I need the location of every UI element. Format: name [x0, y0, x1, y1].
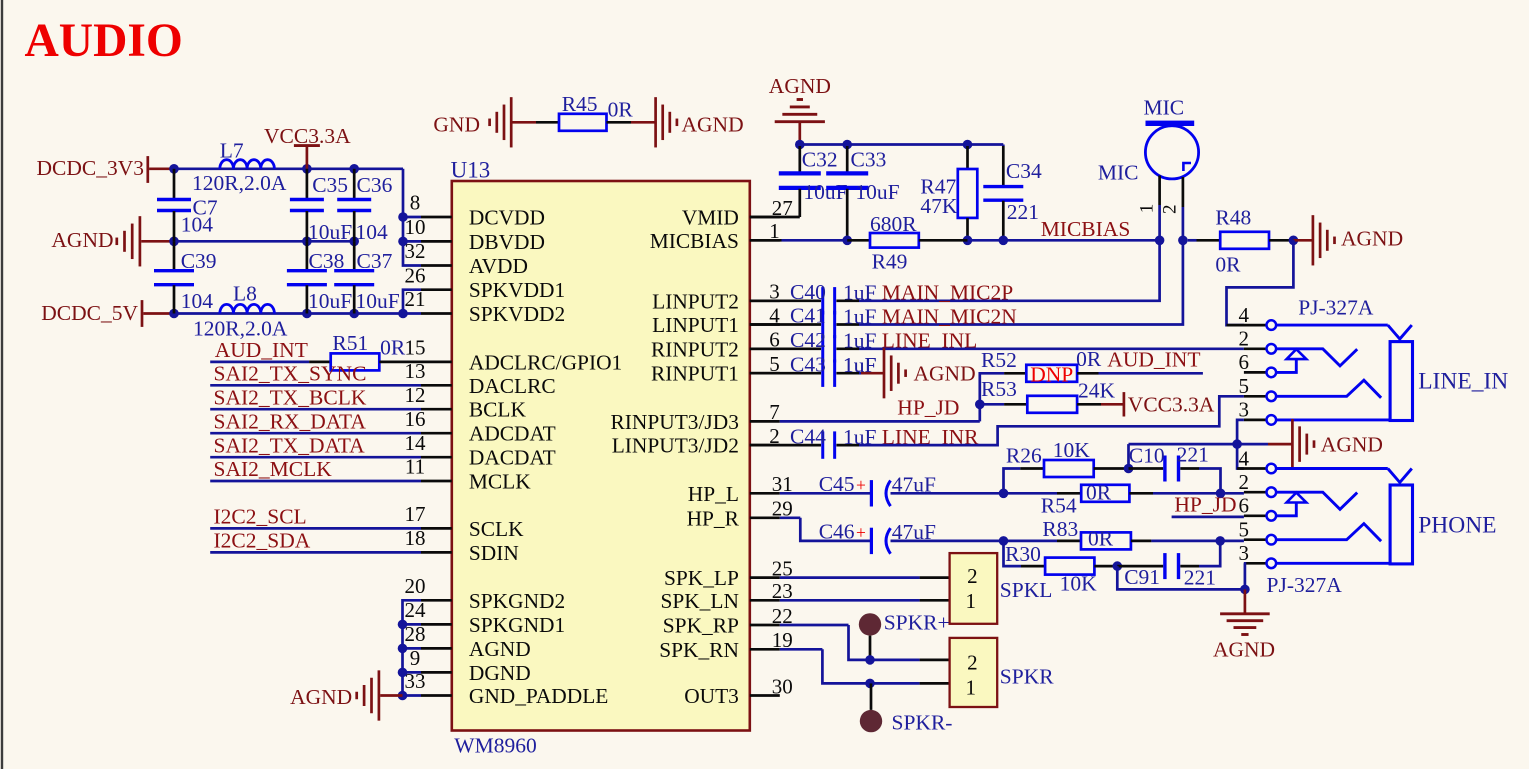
pin 4 of LINE_IN	[1227, 324, 1267, 327]
svg-text:AUD_INT: AUD_INT	[1107, 348, 1200, 372]
svg-text:SDIN: SDIN	[469, 541, 519, 565]
capacitor C43	[750, 372, 821, 375]
pin 4 LINPUT1	[750, 323, 780, 326]
pin 4 of PHONE	[1237, 467, 1266, 470]
svg-text:SPK_RN: SPK_RN	[659, 638, 739, 662]
svg-text:+: +	[856, 523, 866, 543]
svg-text:2: 2	[967, 650, 978, 674]
junction dot C33 bottom	[842, 236, 852, 246]
svg-text:I2C2_SCL: I2C2_SCL	[214, 505, 307, 529]
svg-text:6: 6	[1238, 350, 1249, 374]
svg-text:SPKL: SPKL	[1000, 578, 1053, 602]
svg-text:DCDC_5V: DCDC_5V	[41, 301, 138, 325]
svg-text:C35: C35	[312, 173, 348, 197]
wire C91 left down to ground run	[1117, 566, 1245, 589]
svg-text:C39: C39	[181, 249, 217, 273]
pin 6 of LINE_IN	[1244, 371, 1266, 374]
pin 18 SDIN	[421, 551, 452, 554]
svg-text:AGND: AGND	[290, 685, 352, 709]
capacitor C33	[846, 146, 849, 172]
svg-text:DACLRC: DACLRC	[469, 374, 556, 398]
pin 16 ADCDAT	[421, 432, 452, 435]
wire MAIN_MIC2P to mic pin1	[859, 205, 1160, 301]
svg-text:10K: 10K	[1053, 438, 1091, 462]
svg-text:104: 104	[356, 220, 389, 244]
svg-text:VCC3.3A: VCC3.3A	[1128, 393, 1215, 417]
capacitor C41	[750, 323, 821, 326]
svg-text:R26: R26	[1006, 444, 1042, 468]
svg-text:SCLK: SCLK	[469, 517, 524, 541]
svg-text:R30: R30	[1005, 542, 1041, 566]
junction dots top rail C35 C36	[302, 164, 312, 174]
capacitor C42	[750, 347, 821, 350]
svg-text:C42: C42	[790, 328, 826, 352]
jack PHONE tip contact	[1276, 492, 1357, 509]
pin 29 HP_R	[750, 516, 780, 519]
svg-text:10uF: 10uF	[803, 180, 847, 204]
svg-text:10K: 10K	[1060, 572, 1098, 596]
svg-text:PHONE: PHONE	[1418, 512, 1496, 538]
power port AGND right of R48	[1293, 239, 1313, 242]
jack LINE_IN ring contact	[1276, 380, 1381, 398]
svg-text:DNP: DNP	[1030, 363, 1073, 387]
svg-text:0R: 0R	[1215, 253, 1241, 277]
pin 13 DACLRC	[421, 384, 452, 387]
jack PHONE sleeve symbol	[1276, 467, 1388, 470]
pin 5 of LINE_IN	[1244, 395, 1266, 398]
svg-text:U13: U13	[451, 157, 491, 182]
wire pin3 LINE_IN	[1276, 418, 1390, 421]
wire pin8 branch	[403, 216, 421, 219]
junction dot 3V3 node	[169, 164, 179, 174]
wire AGND to C10 left	[1127, 444, 1130, 468]
wire AUD_INT to R51	[210, 361, 309, 364]
svg-text:SPKGND2: SPKGND2	[469, 589, 565, 613]
svg-text:1uF: 1uF	[843, 304, 877, 328]
capacitor C7	[173, 169, 176, 199]
pin 11 MCLK	[421, 480, 452, 483]
wire pin25 to SPKL pin2	[780, 576, 920, 579]
svg-text:680R: 680R	[870, 212, 917, 236]
wire to SPKR pin1	[870, 682, 920, 685]
wire 3V3 top rail	[172, 167, 404, 170]
pin 25 SPK_LP	[750, 576, 780, 579]
svg-text:1: 1	[966, 675, 977, 699]
svg-text:4: 4	[1238, 446, 1249, 470]
capacitor C38	[306, 241, 309, 270]
pin 24 SPKGND1	[421, 623, 452, 626]
svg-text:120R,2.0A: 120R,2.0A	[192, 171, 287, 195]
svg-text:MAIN_MIC2P: MAIN_MIC2P	[882, 281, 1013, 305]
wire R83 to PHONE pin5	[1151, 540, 1244, 543]
svg-text:PJ-327A: PJ-327A	[1298, 296, 1374, 320]
svg-text:0R: 0R	[1088, 527, 1114, 551]
svg-text:R52: R52	[981, 348, 1017, 372]
svg-text:C10: C10	[1129, 444, 1165, 468]
wire pin21 branch	[403, 312, 421, 315]
svg-text:10: 10	[405, 215, 426, 239]
svg-text:120R,2.0A: 120R,2.0A	[193, 317, 288, 341]
pin 27 VMID	[750, 216, 780, 219]
svg-text:L7: L7	[220, 138, 244, 162]
svg-text:LINE_IN: LINE_IN	[1418, 369, 1508, 395]
svg-text:SAI2_TX_SYNC: SAI2_TX_SYNC	[214, 362, 367, 386]
svg-text:1: 1	[966, 589, 977, 613]
wire C10 right down to HP_L	[1199, 469, 1221, 494]
wire I2C2_SDA	[210, 551, 421, 554]
svg-text:3: 3	[1238, 398, 1249, 422]
junction dots on rail drop	[398, 212, 408, 222]
connector SPKL	[950, 553, 998, 624]
resistor R26	[1020, 467, 1044, 470]
svg-text:HP_L: HP_L	[688, 482, 739, 506]
svg-text:0R: 0R	[380, 336, 406, 360]
pin 7 RINPUT3/JD3	[750, 420, 780, 423]
pin 2 of PHONE	[1244, 491, 1266, 494]
svg-text:GND: GND	[433, 113, 480, 137]
svg-text:C91: C91	[1124, 565, 1160, 589]
svg-text:SPKGND1: SPKGND1	[469, 613, 565, 637]
svg-text:SAI2_MCLK: SAI2_MCLK	[214, 457, 333, 481]
svg-text:AGND: AGND	[469, 637, 531, 661]
svg-text:8: 8	[410, 191, 421, 215]
svg-text:3: 3	[1238, 541, 1249, 565]
pin 15 ADCLRC/GPIO1	[421, 361, 452, 364]
wire pin31 HP_L to C45	[780, 492, 870, 495]
svg-text:SAI2_TX_BCLK: SAI2_TX_BCLK	[214, 385, 367, 409]
svg-text:LINPUT2: LINPUT2	[652, 289, 739, 313]
svg-text:MAIN_MIC2N: MAIN_MIC2N	[882, 304, 1017, 328]
capacitor C36	[353, 169, 356, 199]
pin 26 SPKVDD1	[421, 288, 452, 291]
wire node down to R30	[1004, 541, 1022, 566]
svg-text:221: 221	[1007, 200, 1039, 224]
svg-text:DCVDD: DCVDD	[469, 206, 545, 230]
svg-text:0R: 0R	[1086, 480, 1112, 504]
pin 17 SCLK	[421, 527, 452, 530]
wire pin27 to C32	[798, 215, 801, 217]
svg-text:DBVDD: DBVDD	[469, 230, 545, 254]
svg-text:10uF: 10uF	[308, 220, 352, 244]
pin 23 SPK_LN	[750, 599, 780, 602]
svg-text:C43: C43	[790, 352, 826, 376]
svg-text:C46: C46	[819, 520, 855, 544]
svg-text:SPKR: SPKR	[1000, 664, 1054, 688]
svg-text:R49: R49	[872, 249, 908, 273]
pin 5 RINPUT1	[750, 372, 780, 375]
resistor R53	[980, 403, 1004, 406]
svg-text:SAI2_RX_DATA: SAI2_RX_DATA	[214, 409, 367, 433]
svg-text:15: 15	[405, 336, 426, 360]
wire ground tie pins 20 24 28 9 33	[403, 600, 422, 695]
svg-text:GND_PADDLE: GND_PADDLE	[469, 684, 608, 708]
svg-text:AGND: AGND	[914, 362, 976, 386]
svg-text:DGND: DGND	[469, 661, 531, 685]
svg-text:AGND: AGND	[769, 74, 831, 98]
wire LINE_INL to jack pin2	[859, 347, 1244, 350]
inductor L8	[220, 304, 275, 313]
svg-text:HP_JD: HP_JD	[1174, 493, 1236, 517]
pin 6 RINPUT2	[750, 347, 780, 350]
wire LINE_INR to jack pin5	[859, 396, 1244, 445]
pin 32 AVDD	[421, 264, 452, 267]
svg-text:24: 24	[405, 598, 427, 622]
pin 28 AGND	[421, 647, 452, 650]
svg-text:5: 5	[1238, 518, 1249, 542]
svg-text:AGND: AGND	[1341, 227, 1403, 251]
wire pin29 HP_R to C46	[780, 516, 801, 519]
svg-text:RINPUT2: RINPUT2	[651, 337, 739, 361]
svg-text:24K: 24K	[1078, 378, 1116, 402]
pin 14 DACDAT	[421, 456, 452, 459]
svg-text:C41: C41	[790, 304, 826, 328]
svg-text:R51: R51	[332, 331, 368, 355]
svg-text:DCDC_3V3: DCDC_3V3	[36, 156, 144, 180]
capacitor C44	[750, 444, 821, 447]
svg-text:10uF: 10uF	[356, 289, 400, 313]
capacitor C37	[353, 241, 356, 270]
svg-text:104: 104	[181, 289, 214, 313]
capacitor C10	[1129, 467, 1164, 470]
pin 5 of PHONE	[1244, 538, 1266, 541]
svg-text:2: 2	[1238, 327, 1249, 351]
svg-text:10uF: 10uF	[855, 180, 899, 204]
jack LINE_IN switch contact	[1276, 359, 1296, 372]
resistor R83	[1057, 540, 1081, 543]
svg-text:30: 30	[772, 674, 793, 698]
svg-text:20: 20	[405, 574, 426, 598]
pin 1 of MIC	[1158, 176, 1161, 206]
svg-text:C45: C45	[819, 472, 855, 496]
wire pin3 PHONE	[1276, 562, 1390, 565]
svg-text:OUT3: OUT3	[684, 684, 739, 708]
jack LINE_IN sleeve symbol	[1276, 324, 1388, 327]
resistor R48	[1188, 239, 1197, 242]
svg-text:SPK_LP: SPK_LP	[664, 566, 739, 590]
svg-text:C37: C37	[357, 249, 393, 273]
wire C46 to node	[891, 540, 1058, 543]
svg-text:RINPUT3/JD3: RINPUT3/JD3	[611, 410, 739, 434]
svg-text:AUDIO: AUDIO	[25, 15, 183, 67]
svg-text:221: 221	[1177, 443, 1209, 467]
svg-text:C44: C44	[790, 424, 826, 448]
pin 10 DBVDD	[421, 240, 452, 243]
wire SAI2_TX_SYNC	[210, 384, 421, 387]
svg-text:AGND: AGND	[51, 228, 113, 252]
pin 33 GND_PADDLE	[421, 694, 452, 697]
wire HP_JD stub to PHONE pin6	[1172, 516, 1244, 519]
resistor R49	[847, 239, 870, 242]
pin 31 HP_L	[750, 492, 780, 495]
svg-text:RINPUT1: RINPUT1	[651, 362, 739, 386]
wire SAI2_TX_BCLK	[210, 408, 421, 411]
wire SAI2_RX_DATA	[210, 432, 421, 435]
pin 22 SPK_RP	[750, 624, 780, 627]
svg-text:SAI2_TX_DATA: SAI2_TX_DATA	[214, 433, 366, 457]
svg-text:+: +	[856, 475, 866, 495]
svg-text:R45: R45	[562, 92, 598, 116]
wire micbias to mic	[968, 239, 1160, 242]
svg-text:4: 4	[1238, 303, 1249, 327]
wire pin1 micbias	[750, 239, 782, 242]
resistor R51	[309, 361, 331, 364]
ground AGND earth bottom	[1244, 589, 1247, 613]
wire bottom rail rise to pin 26	[403, 290, 421, 314]
svg-text:HP_JD: HP_JD	[897, 395, 959, 419]
jack LINE_IN tip contact	[1276, 349, 1357, 366]
junction dots bottom rail	[169, 309, 179, 319]
svg-text:2: 2	[1238, 470, 1249, 494]
svg-text:ADCDAT: ADCDAT	[469, 422, 556, 446]
svg-text:17: 17	[405, 502, 426, 526]
svg-text:L8: L8	[233, 282, 257, 306]
svg-text:MICBIAS: MICBIAS	[650, 229, 739, 253]
svg-text:0R: 0R	[1076, 347, 1102, 371]
pin 9 DGND	[421, 671, 452, 674]
svg-text:AUD_INT: AUD_INT	[215, 338, 308, 362]
capacitor C40	[750, 299, 821, 302]
op-amp U13 WM8960 codec body	[452, 181, 750, 731]
svg-text:26: 26	[405, 263, 426, 287]
svg-text:221: 221	[1184, 566, 1216, 590]
pin 12 BCLK	[421, 408, 452, 411]
svg-text:ADCLRC/GPIO1: ADCLRC/GPIO1	[469, 350, 622, 374]
pin 30 OUT3	[750, 694, 780, 697]
svg-text:AGND: AGND	[1213, 637, 1275, 661]
resistor R47	[966, 146, 969, 169]
power port VCC3.3A right	[1101, 403, 1124, 406]
pin 2 of LINE_IN	[1244, 347, 1266, 350]
svg-text:21: 21	[405, 287, 426, 311]
wire to SPKR pin2	[870, 659, 920, 662]
svg-text:SPK_LN: SPK_LN	[660, 589, 738, 613]
svg-text:C36: C36	[357, 173, 393, 197]
svg-text:6: 6	[1238, 494, 1249, 518]
capacitor C91	[1117, 565, 1163, 568]
svg-text:R48: R48	[1215, 206, 1251, 230]
pin 8 DCVDD	[421, 216, 452, 219]
pin 2 of MIC	[1182, 177, 1185, 207]
svg-text:5: 5	[1238, 374, 1249, 398]
wire AGND node to PHONE pin4	[1237, 444, 1244, 468]
svg-text:LINPUT1: LINPUT1	[652, 313, 739, 337]
pin 6 of PHONE	[1244, 514, 1266, 517]
svg-text:C32: C32	[802, 148, 838, 172]
wire node up to R26	[1004, 469, 1021, 494]
svg-text:7: 7	[769, 400, 780, 424]
svg-text:47K: 47K	[920, 194, 958, 218]
pin 1 MICBIAS	[750, 239, 780, 242]
svg-text:SPK_RP: SPK_RP	[663, 614, 739, 638]
svg-text:AGND: AGND	[1321, 433, 1383, 457]
svg-text:2: 2	[967, 564, 978, 588]
wire PHONE pin3 down	[1244, 563, 1245, 589]
power port AGND right of R45	[631, 121, 656, 124]
pin 20 SPKGND2	[421, 599, 452, 602]
pin 21 SPKVDD2	[421, 312, 452, 315]
svg-text:MIC: MIC	[1144, 96, 1185, 120]
wire C91 right up to R83 row	[1199, 541, 1220, 566]
wire R54 to PHONE pin2	[1153, 492, 1244, 495]
svg-text:SPKVDD2: SPKVDD2	[469, 302, 565, 326]
resistor R52 DNP	[1004, 372, 1026, 375]
svg-text:1: 1	[1137, 204, 1158, 214]
svg-text:1uF: 1uF	[843, 281, 877, 305]
svg-text:C33: C33	[851, 148, 887, 172]
svg-text:104: 104	[181, 213, 214, 237]
wire C45 to node	[891, 492, 1058, 495]
wire I2C2_SCL	[210, 527, 421, 530]
wire pin22 SPK_RP	[780, 624, 849, 627]
svg-text:I2C2_SDA: I2C2_SDA	[214, 529, 311, 553]
pin 3 of LINE_IN	[1244, 419, 1266, 422]
pin 19 SPK_RN	[750, 648, 780, 651]
capacitor C32	[798, 146, 801, 172]
inductor L7	[220, 160, 275, 169]
capacitor C39	[173, 241, 176, 270]
svg-text:AGND: AGND	[682, 113, 744, 137]
svg-text:SPKR-: SPKR-	[892, 711, 953, 735]
connector SPKR	[950, 638, 998, 707]
wire LINE_IN pin3 to AGND node	[1237, 420, 1244, 444]
svg-text:2: 2	[1160, 205, 1181, 215]
wire SAI2_MCLK	[210, 480, 421, 483]
wire R48 node down to jack pin4	[1227, 240, 1294, 325]
resistor R54	[1057, 492, 1081, 495]
svg-text:BCLK: BCLK	[469, 398, 527, 422]
wire AGND mid rail	[172, 240, 355, 243]
test point SPKR+	[859, 613, 881, 635]
svg-text:AVDD: AVDD	[469, 254, 528, 278]
wire AUD_INT stub	[1099, 372, 1203, 375]
wire MAIN_MIC2N to mic pin2	[859, 207, 1183, 325]
wire pin10 branch	[403, 240, 421, 243]
power port AGND after C43	[859, 372, 861, 375]
svg-text:MIC: MIC	[1098, 161, 1139, 185]
capacitor C35	[306, 169, 309, 199]
svg-text:WM8960: WM8960	[454, 734, 536, 758]
wire SAI2_TX_DATA	[210, 456, 421, 459]
svg-text:SPKVDD1: SPKVDD1	[469, 278, 565, 302]
wire pin19 SPK_RN	[780, 648, 823, 651]
svg-text:DACDAT: DACDAT	[469, 446, 556, 470]
pin 3 of PHONE	[1244, 562, 1266, 565]
svg-text:R54: R54	[1041, 494, 1077, 518]
svg-text:PJ-327A: PJ-327A	[1267, 573, 1343, 597]
svg-text:MCLK: MCLK	[469, 470, 531, 494]
wire top rail drop to pins 8 10 32	[403, 169, 421, 266]
wire 5V bottom rail	[172, 312, 404, 315]
pin 3 LINPUT2	[750, 299, 780, 302]
pin 2 LINPUT3/JD2	[750, 444, 780, 447]
svg-text:VMID: VMID	[682, 206, 739, 230]
capacitor C34	[1002, 145, 1005, 147]
resistor R30	[1021, 565, 1045, 568]
svg-text:HP_R: HP_R	[687, 506, 740, 530]
svg-text:10uF: 10uF	[308, 289, 352, 313]
svg-text:R53: R53	[981, 377, 1017, 401]
svg-text:R83: R83	[1042, 517, 1078, 541]
junction dots mid rail	[169, 237, 179, 247]
svg-text:LINPUT3/JD2: LINPUT3/JD2	[612, 434, 739, 458]
svg-text:C34: C34	[1006, 159, 1042, 183]
wire HP_JD from pin7	[780, 420, 980, 423]
svg-text:SPKR+: SPKR+	[884, 611, 950, 635]
svg-text:C40: C40	[790, 280, 826, 304]
svg-text:MICBIAS: MICBIAS	[1041, 217, 1131, 241]
wire pin23 to SPKL pin1	[780, 599, 920, 602]
wire micbias top rail	[800, 143, 1004, 146]
